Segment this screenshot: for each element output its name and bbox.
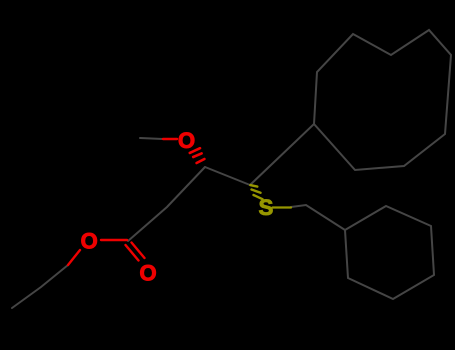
svg-text:O: O (81, 229, 98, 254)
svg-text:O: O (178, 128, 195, 153)
svg-text:O: O (139, 261, 156, 286)
svg-text:S: S (259, 195, 274, 220)
